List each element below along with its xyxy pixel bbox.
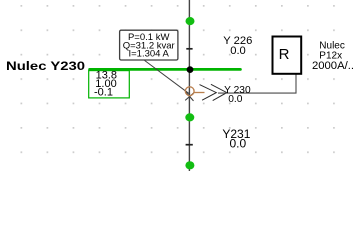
junction dot on busbar — [187, 66, 194, 73]
switch circle (recloser Y 230, tan) — [185, 87, 194, 96]
breaker tick (upper switch) — [186, 48, 192, 50]
svg-text:Nulec Y230: Nulec Y230 — [6, 59, 85, 72]
callout pointer cross — [186, 92, 194, 101]
node: closed switch indicator (top green dot) — [186, 17, 195, 25]
svg-text:0.0: 0.0 — [229, 137, 246, 151]
node: closed switch indicator (bottom green dot) — [185, 161, 194, 169]
wire from switch to relay box — [218, 75, 296, 94]
green voltage result box (13.8 / 1.00 / -0.1) — [89, 69, 130, 98]
svg-text:R: R — [279, 46, 290, 63]
relay box R (recloser controller) — [273, 37, 302, 74]
svg-text:2000A/..: 2000A/.. — [312, 60, 354, 72]
svg-text:I=1.304 A: I=1.304 A — [128, 49, 169, 60]
svg-text:0.0: 0.0 — [228, 94, 242, 105]
result box P/Q/I — [120, 30, 178, 60]
wire: tan stub from switch to arrows — [193, 92, 204, 94]
recloser chevron arrow 2 — [211, 84, 227, 100]
wire: vertical feeder line through node Y 230 — [188, 0, 190, 171]
recloser chevron arrow 1 — [200, 85, 217, 101]
busbar Nulec Y230 (green) — [90, 68, 241, 71]
breaker tick (lower switch) — [186, 144, 193, 146]
svg-text:0.0: 0.0 — [230, 45, 246, 57]
node: closed switch indicator (middle green dot) — [185, 113, 194, 121]
svg-text:-0.1: -0.1 — [94, 87, 113, 99]
callout line from result box to switch — [145, 60, 191, 94]
